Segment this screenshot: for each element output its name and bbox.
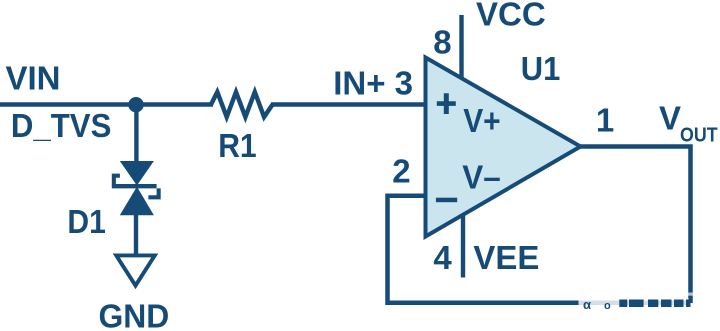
svg-text:α: α bbox=[583, 297, 591, 312]
pin 4 wire to VEE bbox=[461, 216, 465, 278]
watermark over bottom wire bbox=[579, 293, 695, 313]
svg-text:VIN: VIN bbox=[6, 59, 61, 96]
top cathode triangle bbox=[120, 161, 154, 186]
op-amp minus input symbol bbox=[436, 198, 457, 203]
svg-text:VCC: VCC bbox=[476, 0, 546, 32]
svg-text:VEE: VEE bbox=[473, 239, 539, 276]
svg-text:V–: V– bbox=[462, 159, 501, 196]
svg-text:IN+ 3: IN+ 3 bbox=[333, 65, 413, 102]
svg-text:D_TVS: D_TVS bbox=[11, 107, 112, 144]
ground bbox=[116, 255, 155, 285]
svg-text:2: 2 bbox=[392, 153, 410, 190]
svg-text:1: 1 bbox=[596, 102, 614, 139]
wire D1 to ground bbox=[134, 214, 138, 255]
svg-text:o: o bbox=[604, 300, 611, 312]
TVS bar with hooks bbox=[112, 174, 161, 200]
wire VIN input segment bbox=[0, 102, 213, 107]
svg-text:GND: GND bbox=[99, 298, 170, 331]
svg-text:U1: U1 bbox=[521, 50, 561, 87]
svg-text:R1: R1 bbox=[218, 127, 257, 164]
svg-text:D1: D1 bbox=[67, 203, 106, 240]
wire output pin 1 bbox=[578, 147, 691, 304]
diode D1 TVS bidirectional bbox=[112, 161, 161, 215]
node junction on VIN wire bbox=[128, 97, 143, 112]
op-amp U1 triangle bbox=[426, 58, 581, 237]
svg-text:V+: V+ bbox=[463, 102, 501, 139]
op-amp plus input symbol bbox=[437, 93, 456, 114]
bottom cathode triangle bbox=[120, 187, 154, 216]
pin 8 wire to VCC bbox=[459, 15, 463, 79]
wire feedback bottom bbox=[388, 196, 691, 303]
wire node to D1 bbox=[134, 105, 138, 164]
svg-text:4: 4 bbox=[433, 239, 452, 276]
resistor R1 bbox=[211, 92, 273, 117]
svg-text:8: 8 bbox=[433, 23, 451, 60]
wire resistor to op-amp segment bbox=[271, 102, 425, 107]
